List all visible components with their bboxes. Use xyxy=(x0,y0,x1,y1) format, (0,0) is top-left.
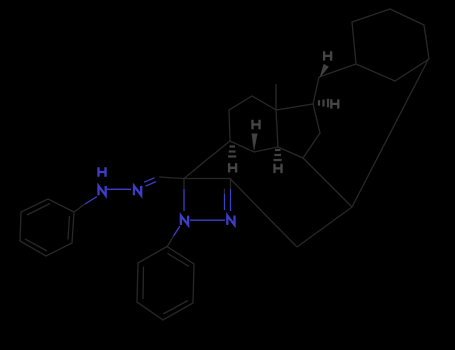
lower right B ring bonds xyxy=(230,60,428,247)
wire: N1-phenyl bond xyxy=(174,226,181,236)
ring C xyxy=(229,84,278,147)
stereo hash C17 xyxy=(319,99,328,108)
stereo row bonds xyxy=(230,141,278,152)
wire: N-N single bond xyxy=(107,188,131,190)
left phenyl ring xyxy=(20,199,74,256)
atom label H stereo C9 xyxy=(229,163,236,172)
stereo hash C9 xyxy=(228,147,236,157)
atom label H of NH hydrazine xyxy=(99,167,106,176)
wire: pyrazole ring square xyxy=(184,179,231,221)
stereo wedge C20 xyxy=(320,64,329,78)
atom label H stereo C20 xyxy=(324,51,331,60)
stereo hash C14 xyxy=(274,150,282,160)
bottom N-phenyl ring xyxy=(137,247,194,321)
steroid A ring diagonals xyxy=(184,141,230,179)
atom label N of NH hydrazine xyxy=(99,186,106,195)
wire: NH-phenyl bond xyxy=(85,197,97,205)
wire: N1-N2 bottom bond xyxy=(190,219,225,221)
atom label N hydrazone xyxy=(134,186,141,195)
top right hexagon ring E xyxy=(352,9,429,81)
wire: C17-C20 bond xyxy=(313,77,319,104)
wire: CH=N double bond xyxy=(144,178,156,186)
atom label H stereo C8 xyxy=(253,120,260,129)
atom label N1 pyrazole xyxy=(181,216,188,225)
stereo wedge C8 xyxy=(252,134,258,152)
wire: C=N2 right edge double bond xyxy=(230,179,232,190)
methyl C18 xyxy=(275,84,277,110)
atom label H stereo C17 xyxy=(331,99,338,108)
ring D xyxy=(276,104,320,158)
atom label N2 pyrazole xyxy=(227,216,234,225)
wire: top edge C-C xyxy=(184,178,231,180)
node: hydrazone CH bond xyxy=(159,177,184,179)
atom label H stereo C14 xyxy=(275,164,282,173)
wire: C-N1 left edge xyxy=(183,179,185,190)
wire: C20-C22 bond xyxy=(319,64,356,77)
